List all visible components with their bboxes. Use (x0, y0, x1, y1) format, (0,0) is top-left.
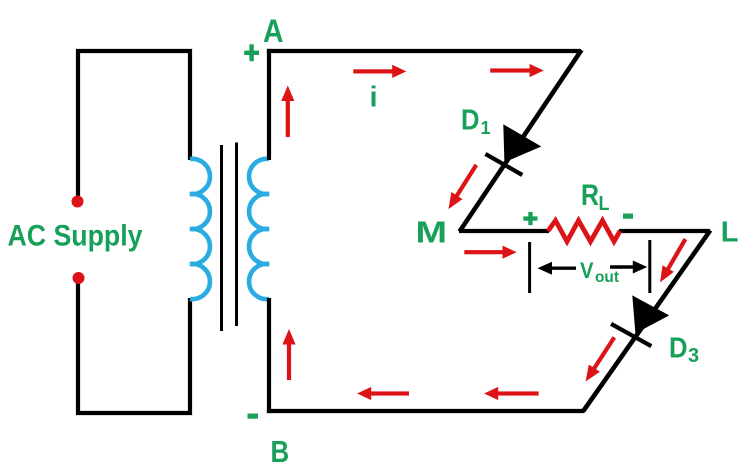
wire diagonal corner to node M (through D1) (460, 50, 582, 232)
Vout left bar (528, 242, 531, 293)
arrow diagonal near L (660, 239, 685, 282)
node lower AC terminal (red dot) (73, 272, 85, 284)
svg-text:AC Supply: AC Supply (8, 220, 143, 253)
arrow right on top wire 2 (490, 64, 544, 77)
svg-text:V: V (580, 258, 594, 283)
svg-text:D: D (669, 332, 688, 364)
svg-text:i: i (370, 82, 378, 114)
wire lower AC terminal to bottom and left loop bottom (78, 281, 192, 413)
label - near B (248, 414, 259, 419)
wire left loop top and left vertical to upper AC terminal (78, 51, 192, 198)
transformer T1 secondary coil (249, 159, 269, 299)
diode D3 cathode bar (611, 324, 651, 346)
node upper AC terminal (red dot) (72, 196, 84, 208)
arrow diagonal near D1 (448, 165, 476, 209)
wire resistor to node L (619, 229, 710, 233)
resistor RL zigzag (548, 221, 620, 242)
label + near A (244, 44, 259, 61)
wire top horizontal A to corner (267, 49, 581, 53)
svg-text:B: B (271, 434, 290, 469)
wire bottom horizontal corner to node B (267, 409, 585, 413)
arrow left on bottom wire 1 (357, 387, 409, 400)
arrow diagonal near D3 (586, 337, 615, 381)
transformer T1 primary coil (190, 159, 210, 299)
label - near resistor (623, 214, 633, 219)
wire primary bottom vertical (188, 298, 192, 415)
svg-text:3: 3 (688, 345, 699, 367)
svg-text:L: L (599, 193, 610, 215)
label + near resistor (523, 212, 537, 225)
wire primary top vertical (188, 49, 192, 160)
Vout right arrow (610, 265, 634, 268)
arrow right below M (464, 246, 516, 259)
svg-text:M: M (416, 215, 448, 250)
arrow left on bottom wire 2 (484, 387, 538, 400)
transformer T1 core line left (220, 145, 223, 331)
Vout left arrow (550, 267, 576, 270)
svg-text:1: 1 (481, 118, 491, 138)
svg-text:A: A (263, 13, 284, 49)
arrow right on top wire 1 (353, 65, 406, 78)
arrow up near B (282, 329, 295, 380)
wire node M to resistor (459, 229, 549, 233)
wire secondary bottom vertical from node B (267, 298, 271, 413)
wire diagonal node L to bottom corner (through D3) (583, 230, 710, 411)
Vout right bar (648, 240, 651, 293)
svg-text:R: R (581, 179, 599, 212)
wire secondary top vertical to node A (267, 49, 271, 160)
svg-text:D: D (461, 104, 480, 136)
svg-text:out: out (595, 269, 620, 286)
diode D3 triangle (632, 295, 669, 333)
diode D1 triangle (503, 124, 541, 162)
svg-text:L: L (721, 216, 739, 248)
transformer T1 core line right (235, 143, 238, 327)
diode D1 cathode bar (485, 154, 522, 175)
arrow up near A (281, 86, 294, 138)
